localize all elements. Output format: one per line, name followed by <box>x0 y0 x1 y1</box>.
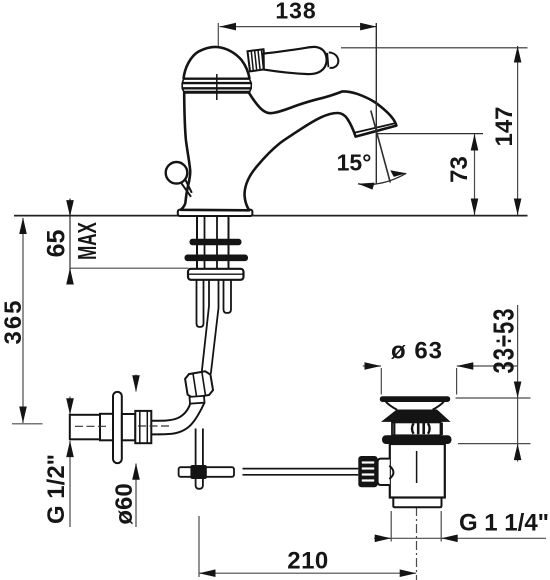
svg-text:ø 63: ø 63 <box>391 338 443 365</box>
svg-text:65: 65 <box>43 230 71 258</box>
svg-text:365: 365 <box>0 298 27 344</box>
svg-text:15°: 15° <box>337 150 372 176</box>
svg-text:73: 73 <box>446 156 473 183</box>
svg-text:33÷53: 33÷53 <box>489 308 521 374</box>
svg-text:147: 147 <box>491 106 518 146</box>
svg-text:138: 138 <box>275 0 316 24</box>
svg-text:G 1 1/4": G 1 1/4" <box>459 510 549 537</box>
svg-text:210: 210 <box>287 548 329 575</box>
svg-text:G 1/2": G 1/2" <box>43 454 70 524</box>
svg-text:MAX: MAX <box>72 222 102 260</box>
svg-text:ø60: ø60 <box>111 483 138 524</box>
